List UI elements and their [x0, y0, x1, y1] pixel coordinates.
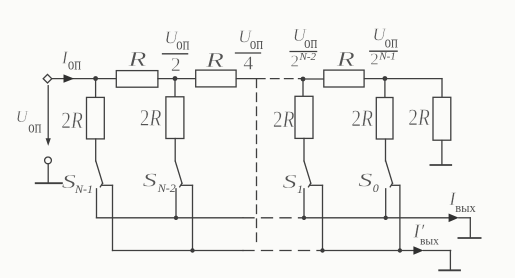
svg-text:S: S [358, 169, 372, 191]
wire: lower output bus, solid right part [322, 250, 414, 252]
switch S_0 contact bar [392, 184, 400, 186]
wire: upper output bus dashed break [243, 217, 304, 219]
svg-text:2: 2 [370, 50, 379, 69]
resistor 2R (terminator) [433, 97, 451, 140]
wire: S_N-2 left contact to upper bus [175, 189, 177, 218]
svg-text:R: R [127, 47, 147, 71]
svg-text:оп: оп [176, 36, 189, 54]
resistor 2R (branch 3) [295, 96, 313, 138]
wire: node B down to 2R second [174, 79, 176, 97]
wire: upper output bus, solid right part [304, 217, 450, 219]
resistor 2R (branch 2) [166, 97, 184, 139]
ground (upper output) [458, 237, 480, 239]
wire: upper output bus (Ivyh rail), solid left part [97, 217, 244, 219]
svg-text:оп: оп [250, 35, 263, 53]
switch S_1 blade barb [309, 183, 311, 187]
resistor R (series, third) [324, 70, 364, 87]
wire: lower bus end to ground corner [424, 250, 451, 252]
switch S_N-2 blade barb [180, 183, 182, 187]
node B junction dot [173, 76, 178, 81]
svg-text:2R: 2R [61, 107, 83, 133]
switch S_N-1 blade barb [100, 183, 102, 187]
terminal circle (reference point) [45, 157, 52, 164]
svg-text:N-2: N-2 [299, 51, 317, 63]
svg-text:0: 0 [373, 181, 379, 195]
current direction arrow I'vyh [413, 246, 423, 255]
svg-text:оп: оп [304, 34, 317, 52]
svg-text:2R: 2R [273, 106, 295, 132]
svg-text:4: 4 [243, 53, 253, 75]
svg-text:2: 2 [171, 54, 181, 76]
svg-text:2R: 2R [351, 105, 373, 131]
node D junction dot [383, 76, 388, 81]
wire: node C to R third [303, 78, 324, 80]
switch S_1 blade [304, 161, 311, 183]
resistor 2R (branch 1) [87, 97, 105, 138]
ground (lower output) [439, 269, 460, 271]
svg-text:оп: оп [385, 34, 398, 52]
wire: corner down to terminator 2R [441, 79, 443, 98]
input terminal (diamond) [43, 74, 52, 83]
wire: S_0 right contact to lower bus [399, 185, 401, 250]
switch S_0 blade barb [390, 183, 392, 187]
svg-text:вых: вых [420, 235, 439, 247]
svg-text:R: R [205, 48, 225, 72]
svg-text:S: S [62, 170, 76, 192]
wire: S_0 left contact to upper bus [385, 189, 387, 218]
wire: R first to node B [158, 78, 196, 80]
svg-text:S: S [283, 170, 297, 192]
wire: input terminal to node A [52, 78, 116, 80]
wire: 2R branch 1 to switch pole [95, 139, 97, 161]
resistor R (series, second) [196, 70, 236, 87]
svg-text:N-1: N-1 [378, 51, 396, 63]
dashed vertical break line [256, 79, 258, 245]
node A junction dot [93, 76, 98, 81]
svg-text:U: U [16, 107, 29, 126]
wire: S_1 right contact to lower bus [322, 185, 324, 250]
resistor 2R (branch 4) [376, 98, 393, 140]
svg-text:2R: 2R [408, 104, 430, 130]
wire: R third to node D and to terminator corner [364, 78, 442, 80]
current direction arrow Ion [64, 74, 75, 82]
node C junction dot [301, 77, 306, 82]
svg-text:R: R [335, 47, 355, 71]
junction dot S_1 at upper bus [302, 216, 306, 220]
svg-text:N-2: N-2 [157, 181, 176, 195]
switch S_N-1 contact bar [102, 184, 113, 186]
svg-text:2R: 2R [140, 105, 162, 131]
wire: S_N-1 left contact to upper bus [96, 189, 98, 218]
wire: dashed rail continuation (ladder break) [257, 78, 303, 80]
svg-text:вых: вых [455, 201, 476, 215]
wire: upper bus end to ground corner [459, 217, 471, 219]
svg-text:оп: оп [28, 119, 41, 137]
junction dot S_N-2 at upper bus [174, 216, 178, 220]
wire: node C down to 2R third [302, 79, 304, 96]
wire: S_N-1 right contact to lower bus [112, 185, 114, 250]
wire: 2R branch 3 to switch pole [303, 138, 305, 161]
wire: lower output bus (I'vyh rail), solid left part [113, 250, 244, 252]
junction dot S_N-2 at lower bus [190, 248, 194, 252]
junction dot S_1 at lower bus [320, 248, 324, 252]
switch S_N-2 contact bar [181, 184, 192, 186]
voltage arrow Uon [47, 86, 49, 140]
switch S_N-2 blade [175, 161, 182, 183]
svg-text:2: 2 [291, 52, 300, 71]
wire: 2R branch 2 to switch pole [174, 139, 176, 162]
wire: node D down to 2R fourth [384, 79, 386, 98]
svg-text:N-1: N-1 [74, 182, 93, 196]
svg-text:S: S [143, 169, 157, 191]
wire: R second to break [236, 78, 256, 80]
wire: node A down to 2R first [95, 79, 97, 98]
resistor R (series, first) [116, 71, 158, 88]
junction dot S_0 at upper bus [384, 216, 388, 220]
wire: S_N-2 right contact to lower bus [192, 185, 194, 250]
ground (terminator) [430, 164, 451, 166]
svg-text:оп: оп [68, 56, 81, 74]
junction dot S_0 at lower bus [398, 248, 402, 252]
switch S_1 contact bar [310, 184, 322, 186]
wire: lower output bus dashed break [243, 250, 322, 252]
svg-text:1: 1 [297, 182, 303, 196]
wire: 2R branch 4 to switch pole [385, 139, 387, 161]
current direction arrow Ivyh [449, 214, 459, 223]
ground (input reference) [47, 164, 49, 183]
switch S_N-1 blade [96, 161, 103, 183]
switch S_0 blade [386, 161, 393, 183]
wire: S_1 left contact to upper bus [303, 189, 305, 218]
wire: terminator 2R to ground [441, 140, 443, 164]
